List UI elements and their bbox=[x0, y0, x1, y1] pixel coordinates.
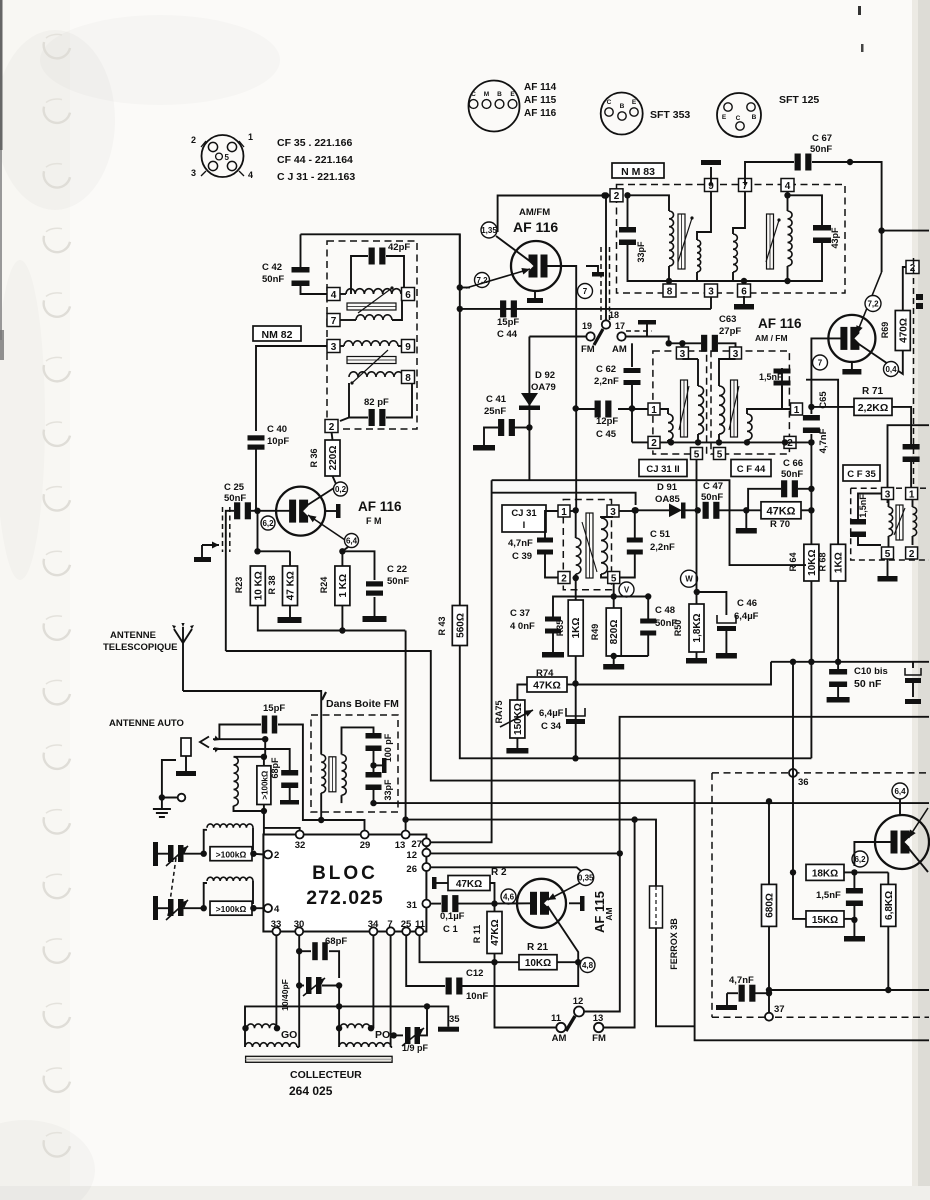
terminal 9 bbox=[402, 340, 415, 353]
svg-text:M: M bbox=[484, 91, 489, 98]
label CJ31 II box bbox=[639, 460, 687, 477]
svg-text:6: 6 bbox=[405, 290, 411, 301]
wire 11 to R11 column bbox=[495, 962, 557, 1027]
terminal 2 CJ31I bbox=[558, 572, 570, 584]
svg-text:B: B bbox=[752, 114, 757, 121]
terminal 1 CF44 bbox=[791, 403, 803, 415]
label NM82 bbox=[253, 326, 301, 341]
node 6,4 output bbox=[892, 783, 908, 799]
svg-text:4,6: 4,6 bbox=[503, 892, 515, 901]
pin 27 bbox=[422, 838, 430, 846]
svg-text:COLLECTEUR: COLLECTEUR bbox=[290, 1069, 362, 1081]
AGC wire from detector to R64 bottom bbox=[528, 479, 530, 481]
node V bbox=[613, 584, 615, 597]
svg-text:C J 31 - 221.163: C J 31 - 221.163 bbox=[277, 171, 355, 183]
capacitor C44 15pF bbox=[500, 300, 506, 317]
svg-text:N M 83: N M 83 bbox=[621, 166, 655, 178]
transistor AF115 AM bbox=[517, 879, 566, 928]
svg-text:R 64: R 64 bbox=[788, 552, 798, 571]
svg-text:C 34: C 34 bbox=[541, 721, 562, 732]
output emitter line bbox=[899, 799, 901, 816]
vertical main FM feed bbox=[459, 234, 461, 601]
wire AM line with C44 bbox=[460, 308, 711, 310]
capacitor C67 50nF bbox=[795, 154, 801, 171]
plug V symbol with arrows bbox=[200, 737, 209, 748]
ferrox 3B bead bbox=[650, 886, 663, 928]
svg-text:2: 2 bbox=[651, 438, 657, 449]
potentiometer RA75 150K bbox=[510, 700, 525, 738]
pin 12 rail bbox=[430, 852, 619, 854]
pinout tube socket CF35/CF44/CJ31 bbox=[202, 135, 244, 177]
svg-text:3: 3 bbox=[885, 489, 891, 500]
collector lead 1,35 bbox=[496, 236, 531, 262]
wire 17 node to C63 bbox=[669, 342, 701, 344]
CF44 slug bbox=[731, 380, 738, 437]
IF transformer T1 primary coil bbox=[628, 195, 670, 211]
svg-text:4: 4 bbox=[274, 904, 280, 915]
svg-text:D 91: D 91 bbox=[657, 482, 678, 493]
wire R64 R68 bottoms to bus bbox=[810, 581, 812, 662]
svg-text:C: C bbox=[607, 99, 612, 106]
svg-text:C 42: C 42 bbox=[262, 262, 282, 273]
label CJ31 I box bbox=[502, 505, 546, 532]
svg-text:6,4µF: 6,4µF bbox=[734, 611, 759, 622]
terminal 5 CF35 bbox=[882, 547, 894, 559]
svg-text:1KΩ: 1KΩ bbox=[834, 552, 845, 573]
wire W node to C46 top bbox=[697, 592, 727, 615]
svg-text:8: 8 bbox=[405, 373, 411, 384]
svg-text:820Ω: 820Ω bbox=[609, 620, 620, 645]
capacitor 43pF bbox=[788, 195, 823, 226]
CJ31II small coil bbox=[660, 409, 668, 414]
svg-text:1 KΩ: 1 KΩ bbox=[338, 574, 349, 598]
IF transformer T2 primary coil bbox=[733, 192, 745, 235]
svg-text:68pF: 68pF bbox=[325, 936, 347, 947]
bottom rail 2 row bbox=[632, 441, 648, 443]
svg-text:CF 35 . 221.166: CF 35 . 221.166 bbox=[277, 137, 352, 149]
collector tab bar bbox=[336, 504, 341, 518]
terminal 7 bbox=[327, 314, 340, 327]
switch contact 11 bbox=[556, 1023, 565, 1032]
shield box Dans Boite FM dashed bbox=[311, 715, 398, 812]
svg-text:12: 12 bbox=[573, 996, 584, 1007]
shield box NM83 dashed outline bbox=[617, 185, 846, 294]
wire R36 to collector diagonal bbox=[333, 476, 337, 484]
right margin component blobs bbox=[916, 294, 923, 300]
CF44 small coil bbox=[747, 409, 790, 414]
CJ31II tall coil bbox=[682, 358, 698, 360]
node 6,2 bbox=[261, 516, 275, 530]
resistor 18K bbox=[806, 864, 844, 880]
wire CJ31II 5 down through W to R50 bbox=[696, 460, 698, 572]
svg-text:3: 3 bbox=[708, 286, 714, 297]
ground below R38 bbox=[289, 606, 291, 618]
terminal 4 bbox=[327, 288, 340, 301]
svg-text:8: 8 bbox=[667, 286, 673, 297]
resistor R35 1K bbox=[575, 597, 577, 601]
svg-text:AF 116: AF 116 bbox=[524, 108, 557, 119]
svg-text:SFT 125: SFT 125 bbox=[779, 94, 819, 106]
node 4,8 bbox=[580, 958, 595, 973]
svg-text:6,4: 6,4 bbox=[346, 536, 358, 545]
wire pin 30 column bbox=[298, 935, 300, 1047]
pin 7 bbox=[387, 927, 395, 935]
FM box secondary coil bbox=[342, 755, 347, 796]
bottom junction rail NM83 bbox=[669, 280, 788, 282]
transistor AF116 FM bbox=[276, 487, 325, 536]
wire pin 31 to C1 bbox=[430, 903, 441, 905]
svg-text:C 41: C 41 bbox=[486, 394, 507, 405]
shield box CF44 dashed bbox=[711, 351, 789, 454]
svg-text:27: 27 bbox=[411, 839, 422, 850]
T2 core slug bbox=[767, 214, 774, 269]
base lead AF116 right bbox=[811, 338, 842, 407]
wire 12 up to pin 12 rail bbox=[584, 853, 620, 1011]
terminal 9 bbox=[705, 179, 718, 192]
terminal 7 bbox=[739, 179, 752, 192]
svg-text:AF 116: AF 116 bbox=[513, 219, 558, 235]
svg-text:0,35: 0,35 bbox=[578, 873, 594, 882]
svg-text:5: 5 bbox=[717, 449, 723, 460]
svg-text:5: 5 bbox=[694, 449, 700, 460]
wire pin 33 down bbox=[275, 935, 277, 1028]
svg-text:1: 1 bbox=[909, 489, 915, 500]
svg-text:1: 1 bbox=[794, 405, 800, 416]
svg-text:37: 37 bbox=[774, 1004, 785, 1015]
svg-text:7: 7 bbox=[387, 919, 392, 930]
emitter lead with arrow bbox=[466, 269, 530, 288]
resistor R43 560 ohm bbox=[452, 606, 467, 646]
svg-text:>100kΩ: >100kΩ bbox=[260, 770, 269, 799]
pin 30 bbox=[295, 927, 303, 935]
wire C42 top to bus bbox=[300, 234, 302, 270]
svg-text:R49: R49 bbox=[590, 624, 600, 641]
core slug NM82 top bbox=[347, 303, 396, 310]
pin 11 bbox=[416, 927, 424, 935]
ground below socket bbox=[161, 798, 163, 810]
wire R71 right to series cap bbox=[892, 407, 911, 444]
svg-text:D 92: D 92 bbox=[535, 370, 555, 381]
coil NM82 primary top bbox=[340, 293, 346, 295]
resistor 6,8K bbox=[887, 872, 889, 884]
svg-text:R 36: R 36 bbox=[309, 448, 319, 467]
wire second plug line bbox=[213, 749, 290, 771]
wire 18 up to top rail bbox=[605, 196, 607, 321]
resistor >100k vertical bbox=[263, 757, 265, 766]
svg-text:33pF: 33pF bbox=[636, 241, 646, 263]
wire 100k to BLOC pin 2 bbox=[264, 811, 268, 855]
svg-text:C 25: C 25 bbox=[224, 482, 245, 493]
terminal 3 CF44 bbox=[730, 347, 742, 359]
pin 25 bbox=[402, 927, 410, 935]
emitter lead up right bbox=[881, 231, 883, 272]
wire PO left column bbox=[338, 1006, 340, 1047]
CJ31II slug bbox=[681, 380, 688, 437]
svg-text:100 pF: 100 pF bbox=[383, 733, 393, 762]
svg-text:10 KΩ: 10 KΩ bbox=[253, 571, 264, 600]
ground below 1,5nF bbox=[853, 920, 855, 936]
wire antenna to FM box bbox=[183, 691, 321, 755]
node 6,2 output bbox=[852, 851, 868, 867]
wire base AF115 bbox=[495, 902, 534, 904]
svg-text:PO: PO bbox=[375, 1029, 390, 1041]
FM feed bus left bbox=[226, 651, 929, 1040]
terminal 3 CJ31I bbox=[607, 505, 619, 517]
svg-text:AM/FM: AM/FM bbox=[519, 207, 550, 218]
terminal 4 bbox=[781, 179, 794, 192]
svg-text:C 51: C 51 bbox=[650, 529, 671, 540]
shield box CF35 dashed bbox=[851, 488, 929, 560]
node 7,2 bbox=[475, 273, 490, 288]
svg-text:AF 116: AF 116 bbox=[758, 316, 802, 331]
svg-text:R 70: R 70 bbox=[770, 519, 790, 530]
svg-text:BLOC: BLOC bbox=[312, 863, 378, 884]
svg-text:ANTENNE: ANTENNE bbox=[110, 630, 156, 641]
svg-text:C 1: C 1 bbox=[443, 924, 459, 935]
pin 33 bbox=[272, 927, 280, 935]
wire top frame AF116 AM-FM bbox=[498, 196, 612, 233]
emitter lead from 0,35 into AF115 bbox=[548, 883, 581, 900]
svg-text:B: B bbox=[620, 103, 625, 110]
node 7 right bbox=[813, 355, 828, 370]
terminal 8 bbox=[402, 371, 415, 384]
svg-text:4: 4 bbox=[331, 290, 337, 301]
CJ31I primary coil bbox=[575, 511, 577, 538]
pin 26 rail to AF115 frame bbox=[430, 867, 581, 871]
svg-text:34: 34 bbox=[368, 919, 379, 930]
svg-text:1,5nF: 1,5nF bbox=[858, 494, 868, 518]
svg-text:0,4: 0,4 bbox=[885, 365, 897, 374]
wire bus C42 to AF116 stage bbox=[301, 234, 460, 287]
coil NM82 secondary top bbox=[340, 319, 356, 321]
common ground R49 C48 bbox=[614, 655, 649, 657]
antenna coil bbox=[234, 756, 264, 758]
wire base junction down to R23 R38 bbox=[258, 511, 291, 552]
svg-text:272.025: 272.025 bbox=[306, 887, 384, 909]
node 7 emitter bbox=[578, 284, 593, 299]
svg-text:AM: AM bbox=[604, 907, 614, 920]
svg-text:1: 1 bbox=[561, 507, 567, 518]
svg-text:47KΩ: 47KΩ bbox=[456, 879, 482, 890]
svg-text:SFT 353: SFT 353 bbox=[650, 109, 690, 121]
wire to pin 32 bbox=[264, 828, 300, 831]
wire detector feed to terminal 1 bbox=[573, 507, 579, 513]
capacitor 33pF bbox=[627, 195, 629, 228]
oscillator coil PO primary bbox=[340, 1024, 370, 1028]
svg-text:CJ 31 II: CJ 31 II bbox=[646, 464, 679, 475]
svg-text:17: 17 bbox=[615, 321, 625, 331]
coil NM82 primary bottom bbox=[340, 345, 344, 347]
svg-text:470Ω: 470Ω bbox=[898, 318, 909, 343]
svg-text:C63: C63 bbox=[719, 314, 736, 325]
terminal 1 CF35 bbox=[906, 488, 918, 500]
wire R74 row to AVC bus bbox=[576, 662, 772, 685]
svg-text:2,2KΩ: 2,2KΩ bbox=[858, 402, 889, 414]
terminal 2 CF44 bbox=[784, 436, 796, 448]
svg-text:2: 2 bbox=[787, 438, 793, 449]
resistor R38 47K bbox=[289, 551, 291, 566]
pin 34 bbox=[369, 927, 377, 935]
capacitor C22 50nF bbox=[342, 551, 374, 580]
svg-text:50 nF: 50 nF bbox=[854, 678, 882, 690]
svg-text:264 025: 264 025 bbox=[289, 1084, 333, 1098]
svg-text:6,4µF: 6,4µF bbox=[539, 708, 564, 719]
wire R43 top rail bbox=[459, 601, 461, 606]
CF35 slug bbox=[896, 505, 903, 540]
node 0,4 bbox=[884, 362, 899, 377]
output transistor bbox=[875, 815, 929, 869]
switch contact 19 bbox=[586, 332, 594, 340]
output transistor base wire bbox=[854, 842, 893, 866]
svg-text:47KΩ: 47KΩ bbox=[533, 680, 561, 692]
wire terminal 3 to C40 bbox=[256, 346, 327, 431]
svg-text:50nF: 50nF bbox=[810, 144, 832, 155]
wire T1 bottom to terminal 8 bbox=[668, 281, 670, 284]
terminal 6 bbox=[402, 288, 415, 301]
pin 29 bbox=[361, 831, 369, 839]
svg-text:C 45: C 45 bbox=[596, 429, 617, 440]
svg-text:2: 2 bbox=[614, 191, 620, 202]
svg-text:FERROX 3B: FERROX 3B bbox=[669, 918, 679, 970]
switch lever bottom bbox=[566, 1016, 575, 1031]
svg-text:33pF: 33pF bbox=[383, 779, 393, 801]
base lead to detector line bbox=[545, 266, 576, 510]
FM box slug bbox=[329, 757, 336, 792]
dashed AM link bbox=[626, 330, 652, 332]
AFC dashed link bbox=[222, 507, 224, 552]
svg-text:42pF: 42pF bbox=[388, 242, 410, 253]
svg-text:AF 114: AF 114 bbox=[524, 82, 557, 93]
wire C63 to CF44 terminal 3 bbox=[718, 343, 736, 347]
wire pin 13 rail bbox=[405, 820, 407, 831]
svg-text:3: 3 bbox=[191, 168, 196, 178]
switch contact 17 bbox=[617, 332, 625, 340]
emitter row to R68 feed bbox=[806, 380, 838, 545]
wire 13 to FM rail bbox=[603, 820, 634, 1028]
svg-text:OA79: OA79 bbox=[531, 382, 556, 393]
pin 36 bbox=[789, 769, 797, 777]
bus to coils bbox=[245, 1006, 448, 1028]
svg-text:E: E bbox=[722, 114, 727, 121]
wire 19 to FM detector line bbox=[529, 336, 586, 338]
dashed right margin link bbox=[913, 258, 915, 488]
node W bbox=[681, 570, 698, 587]
wire 82pF row to terminal 2 bbox=[349, 417, 368, 419]
svg-text:GO: GO bbox=[281, 1029, 297, 1041]
svg-text:5: 5 bbox=[885, 549, 891, 560]
svg-text:R69: R69 bbox=[880, 322, 890, 339]
pin 31 bbox=[422, 900, 430, 908]
svg-text:Dans Boite FM: Dans Boite FM bbox=[326, 698, 399, 710]
tuning gang 2 variable capacitor bbox=[153, 896, 158, 920]
svg-text:7: 7 bbox=[583, 287, 588, 296]
switch lever 18 bbox=[594, 329, 603, 345]
terminal 5 CF44 bbox=[714, 448, 726, 460]
svg-text:560Ω: 560Ω bbox=[455, 613, 466, 638]
emitter ground right bbox=[851, 362, 853, 369]
svg-text:6,8KΩ: 6,8KΩ bbox=[884, 891, 895, 920]
svg-text:R 38: R 38 bbox=[267, 575, 277, 594]
svg-text:ANTENNE AUTO: ANTENNE AUTO bbox=[109, 718, 184, 729]
resistor R69 470 ohm bbox=[895, 311, 910, 351]
terminal 5 CJ31II bbox=[691, 448, 703, 460]
svg-text:C 47: C 47 bbox=[703, 481, 723, 492]
svg-text:R 43: R 43 bbox=[437, 616, 447, 635]
svg-text:R23: R23 bbox=[234, 577, 244, 594]
wire plug to 100k node bbox=[213, 738, 265, 740]
svg-text:7: 7 bbox=[331, 316, 337, 327]
svg-text:FM: FM bbox=[592, 1033, 606, 1044]
ground below CF35 5 bbox=[887, 559, 889, 576]
svg-text:47 KΩ: 47 KΩ bbox=[286, 571, 297, 600]
svg-text:AM: AM bbox=[552, 1033, 567, 1044]
terminal 1 CJ31I bbox=[558, 505, 570, 517]
svg-text:4: 4 bbox=[248, 170, 253, 180]
svg-text:1/9 pF: 1/9 pF bbox=[402, 1043, 429, 1053]
svg-text:9: 9 bbox=[405, 342, 411, 353]
svg-text:C 40: C 40 bbox=[267, 424, 287, 435]
svg-text:32: 32 bbox=[295, 840, 306, 851]
FM box primary coil bbox=[321, 755, 325, 793]
right edge capacitor at page margin bbox=[912, 662, 914, 668]
wire emitter node to R24 bbox=[342, 547, 348, 551]
svg-text:47KΩ: 47KΩ bbox=[490, 919, 501, 945]
long vertical bus to pin 27 bbox=[430, 480, 491, 842]
detector out bus bbox=[492, 480, 806, 565]
pin 13 bbox=[402, 831, 410, 839]
collector tab AF115 bbox=[569, 902, 580, 904]
wire emitter row bbox=[460, 287, 470, 289]
node 7,2 right bbox=[865, 296, 881, 312]
wire terminal 7 to C67 bbox=[745, 162, 794, 185]
resistor >100k AM 2 bbox=[210, 901, 252, 915]
wire C40 to base junction bbox=[255, 449, 257, 511]
wire R69 top to terminal 2 right bbox=[903, 267, 906, 311]
auto antenna jack bbox=[181, 738, 191, 756]
svg-text:2: 2 bbox=[191, 135, 196, 145]
terminal 6 NM83 bbox=[738, 284, 751, 297]
wire R43 bottom to supply row bbox=[460, 646, 812, 759]
main line to FM box bbox=[374, 802, 930, 804]
wire FM line down through D92 bbox=[528, 337, 530, 480]
wire node to CJ31 II terminal 3 bbox=[681, 343, 683, 347]
svg-text:2: 2 bbox=[561, 573, 567, 584]
svg-text:680Ω: 680Ω bbox=[765, 893, 776, 918]
wire C42 to terminal 4 bbox=[301, 283, 328, 294]
binder holes left margin bbox=[44, 42, 70, 58]
wire C67 to right rail bbox=[812, 162, 929, 231]
chassis stub on C62 node bbox=[629, 405, 635, 411]
svg-text:26: 26 bbox=[406, 864, 417, 875]
svg-text:11: 11 bbox=[415, 919, 426, 930]
core slug NM82 bottom bbox=[347, 357, 396, 364]
wire from rail to terminal 2 bbox=[624, 192, 630, 198]
svg-text:C: C bbox=[736, 115, 741, 122]
svg-text:68pF: 68pF bbox=[270, 757, 280, 779]
wire pin 7 down bbox=[390, 935, 392, 1035]
svg-text:29: 29 bbox=[360, 840, 371, 851]
svg-text:18: 18 bbox=[609, 310, 619, 320]
svg-text:E: E bbox=[632, 99, 637, 106]
svg-text:1,5nF: 1,5nF bbox=[816, 890, 841, 901]
svg-text:C 37: C 37 bbox=[510, 608, 530, 619]
svg-text:R50: R50 bbox=[673, 620, 683, 637]
svg-text:10KΩ: 10KΩ bbox=[525, 958, 551, 969]
svg-text:B: B bbox=[497, 91, 502, 98]
wire 12pF to terminal 1 bbox=[618, 408, 648, 410]
svg-text:36: 36 bbox=[798, 777, 809, 788]
pin 4 bbox=[264, 904, 272, 912]
